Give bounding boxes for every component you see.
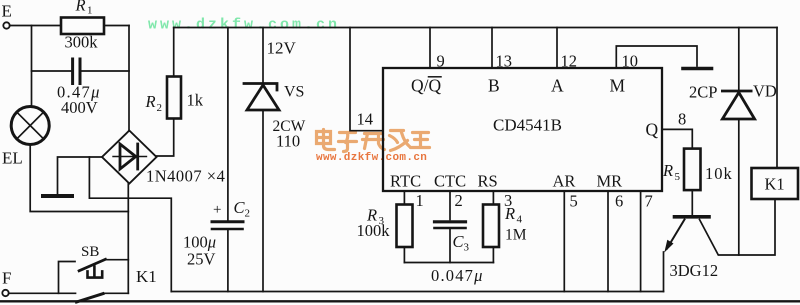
lamp EL (11, 107, 49, 145)
IC CD4541B box (383, 68, 662, 191)
top 12V bus (174, 27, 777, 29)
svg-text:R: R (504, 204, 515, 223)
svg-text:12: 12 (561, 52, 578, 71)
bottom bus ground (171, 291, 663, 293)
svg-text:CD4541B: CD4541B (493, 116, 562, 135)
bottom border line (1, 300, 799, 302)
bridge rectifier diamond (102, 131, 157, 184)
switch SB actuator (88, 267, 103, 278)
svg-text:www.dzkfw.com.cn: www.dzkfw.com.cn (316, 152, 427, 164)
svg-text:12V: 12V (267, 39, 297, 58)
capacitor C3 (435, 220, 466, 223)
wire pin14 (350, 28, 383, 131)
wire cap right (82, 70, 130, 72)
wire bridge left to ground (58, 157, 103, 194)
svg-text:4: 4 (517, 214, 523, 226)
pin 7 wire (640, 191, 642, 292)
svg-text:RS: RS (478, 172, 498, 191)
bridge inner diode 1N4007 (113, 156, 147, 158)
wire F to SB (9, 292, 59, 294)
svg-text:Q/Q: Q/Q (411, 76, 442, 96)
wire C2 bottom (227, 231, 229, 292)
ground bar (43, 194, 72, 198)
svg-text:M: M (610, 76, 626, 96)
wire RC bottom join (404, 262, 493, 264)
svg-text:F: F (2, 269, 11, 288)
svg-text:3: 3 (464, 242, 470, 254)
svg-text:Q: Q (646, 120, 659, 140)
wire lamp bottom (30, 145, 128, 212)
svg-text:14: 14 (357, 110, 374, 129)
pin 10 wire to ground (616, 46, 697, 68)
svg-text:100k: 100k (357, 221, 391, 240)
wire down to bridge top (128, 26, 130, 132)
wire R2 top to bus (173, 28, 175, 77)
svg-text:2: 2 (157, 102, 163, 114)
svg-text:MR: MR (597, 172, 623, 191)
wire VD top (738, 28, 740, 91)
svg-text:10: 10 (622, 52, 639, 71)
svg-text:8: 8 (678, 110, 686, 129)
wire node down from E wire (31, 26, 33, 106)
svg-text:13: 13 (496, 52, 513, 71)
svg-text:2CP: 2CP (689, 83, 717, 102)
svg-text:E: E (2, 2, 12, 21)
svg-text:1: 1 (87, 5, 93, 17)
wire R3 bottom (403, 247, 405, 263)
zener VS (244, 84, 279, 111)
svg-text:VS: VS (284, 84, 304, 101)
svg-text:1M: 1M (505, 227, 527, 244)
svg-text:3DG12: 3DG12 (670, 261, 719, 280)
svg-text:10k: 10k (705, 164, 733, 183)
relay K1 box (752, 168, 799, 199)
wire E to R1 (10, 25, 61, 27)
svg-text:1k: 1k (187, 91, 204, 110)
svg-text:2: 2 (245, 208, 251, 220)
svg-text:300k: 300k (65, 33, 99, 52)
resistor R1 (61, 18, 104, 35)
svg-text:2: 2 (455, 191, 463, 210)
wire cap left (32, 70, 72, 72)
svg-text:K1: K1 (136, 267, 157, 286)
transistor collector (700, 199, 776, 255)
watermark orange hanzi 电子开发王 (317, 130, 430, 152)
svg-text:RTC: RTC (390, 172, 421, 191)
svg-text:5: 5 (675, 171, 681, 183)
svg-text:9: 9 (437, 52, 445, 71)
resistor R2 (167, 77, 181, 119)
pin 3 wire (492, 191, 494, 205)
svg-text:400V: 400V (61, 98, 98, 117)
svg-text:1: 1 (416, 191, 424, 210)
wire R4 bottom (492, 247, 494, 263)
resistor R4 (483, 205, 499, 248)
svg-text:0.047μ: 0.047μ (431, 266, 484, 285)
wire bridge right to R2 (157, 119, 174, 157)
wire bridge bottom to switches (127, 184, 129, 294)
svg-text:5: 5 (570, 192, 578, 211)
wire C2 top (227, 28, 229, 221)
svg-text:R: R (145, 92, 156, 111)
wire VS bottom (262, 112, 264, 292)
transistor 3DG12 base bar (675, 215, 710, 219)
svg-text:7: 7 (645, 192, 653, 211)
svg-text:AR: AR (553, 172, 576, 191)
svg-text:1N4007 ×4: 1N4007 ×4 (146, 167, 225, 186)
terminal F circle (2, 290, 8, 296)
wire C3 bottom (449, 230, 451, 263)
terminal E circle (3, 22, 9, 28)
pin 8 wire (662, 129, 692, 148)
switch SB frame (59, 262, 76, 294)
pin 13 wire (491, 28, 493, 69)
svg-text:6: 6 (615, 192, 623, 211)
ground bar pin10 (683, 67, 712, 71)
pin 1 wire (403, 191, 405, 205)
svg-text:25V: 25V (187, 250, 216, 269)
svg-text:B: B (488, 76, 500, 96)
capacitor C2 plates (212, 220, 243, 223)
svg-text:www.dzkfw.com.cn: www.dzkfw.com.cn (148, 17, 340, 34)
pin 12 wire (556, 28, 558, 69)
wire R1 right (104, 25, 129, 27)
svg-text:110: 110 (276, 132, 300, 151)
svg-text:VD: VD (753, 82, 777, 101)
svg-text:CTC: CTC (434, 172, 466, 191)
svg-text:EL: EL (2, 149, 23, 168)
pin 5 wire (563, 191, 565, 292)
resistor R3 (397, 205, 413, 248)
svg-text:K1: K1 (765, 175, 785, 194)
wire VS top (262, 28, 264, 83)
resistor R5 (684, 149, 701, 191)
wire bridge left to bottom bus (89, 157, 171, 292)
switch SB arm (79, 259, 105, 271)
svg-text:A: A (551, 76, 564, 96)
switch K1 arm (77, 294, 104, 302)
capacitor 0.47u plates (73, 59, 80, 84)
transistor emitter with arrow (667, 220, 685, 249)
wire SB right (105, 259, 128, 261)
svg-text:R: R (662, 161, 673, 180)
svg-text:R: R (75, 0, 86, 15)
wire VD bottom (738, 121, 740, 256)
pin 9 wire (429, 28, 431, 69)
wire K1 arm to vertical (103, 292, 128, 294)
pin 6 wire (607, 191, 609, 292)
diode VD (722, 91, 754, 119)
wire K1 top (776, 28, 778, 169)
wire R5 to base (691, 190, 693, 215)
pin 2 wire (449, 191, 451, 220)
svg-text:SB: SB (81, 244, 99, 260)
svg-text:+: + (213, 202, 221, 218)
